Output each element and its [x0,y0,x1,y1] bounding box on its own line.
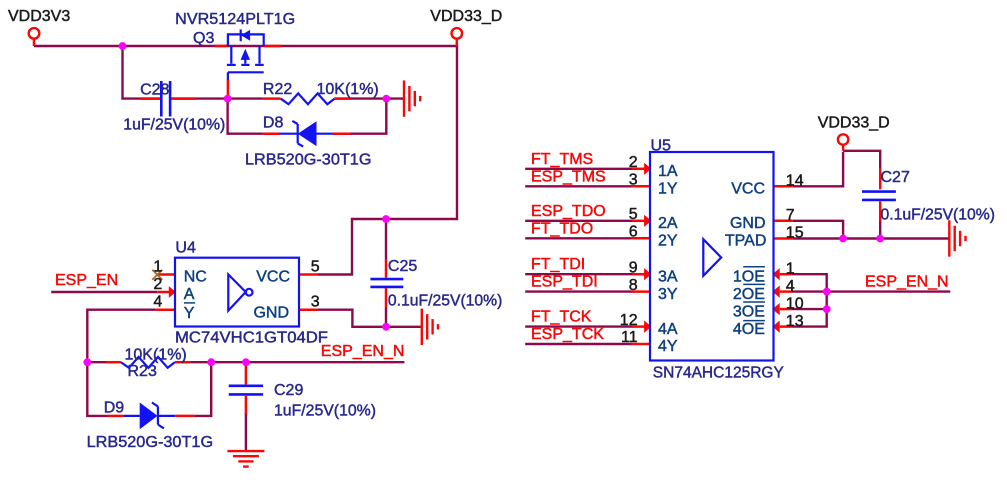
svg-text:MC74VHC1GT04DF: MC74VHC1GT04DF [175,330,328,347]
svg-text:12: 12 [620,312,638,329]
svg-text:U5: U5 [651,138,672,155]
svg-text:ESP_TDO: ESP_TDO [531,203,606,220]
svg-text:A: A [184,286,195,303]
svg-text:VCC: VCC [256,269,290,286]
svg-text:Q3: Q3 [193,30,214,47]
svg-text:13: 13 [786,313,804,330]
svg-text:GND: GND [253,304,289,321]
svg-text:ESP_TMS: ESP_TMS [531,168,606,185]
svg-text:14: 14 [786,173,804,190]
svg-text:6: 6 [629,224,638,241]
svg-text:LRB520G-30T1G: LRB520G-30T1G [245,152,372,169]
svg-text:1A: 1A [658,163,678,180]
svg-text:ESP_TDI: ESP_TDI [531,274,598,291]
svg-text:ESP_EN_N: ESP_EN_N [321,343,405,360]
svg-text:4A: 4A [658,321,678,338]
svg-text:8: 8 [629,277,638,294]
svg-text:1: 1 [786,260,795,277]
svg-text:3: 3 [629,172,638,189]
svg-text:9: 9 [629,259,638,276]
svg-text:10K(1%): 10K(1%) [125,347,187,364]
svg-text:C27: C27 [881,169,910,186]
svg-text:10: 10 [786,295,804,312]
svg-text:2Y: 2Y [658,233,678,250]
svg-text:FT_TMS: FT_TMS [531,151,593,168]
svg-text:3: 3 [311,294,320,311]
svg-text:D9: D9 [104,400,125,417]
svg-text:TPAD: TPAD [725,233,766,250]
svg-text:VDD33_D: VDD33_D [818,114,890,131]
svg-text:3Y: 3Y [658,286,678,303]
svg-text:NC: NC [184,269,207,286]
svg-text:4: 4 [153,294,162,311]
svg-text:1uF/25V(10%): 1uF/25V(10%) [274,403,376,420]
svg-text:10K(1%): 10K(1%) [317,81,379,98]
svg-text:FT_TDO: FT_TDO [531,220,593,237]
svg-text:4Y: 4Y [658,338,678,355]
svg-text:3OE: 3OE [733,303,765,320]
svg-text:R22: R22 [263,81,292,98]
svg-text:0.1uF/25V(10%): 0.1uF/25V(10%) [881,207,996,224]
svg-text:SN74AHC125RGY: SN74AHC125RGY [653,364,784,381]
svg-text:2OE: 2OE [733,286,765,303]
svg-text:1OE: 1OE [733,268,765,285]
svg-text:1uF/25V(10%): 1uF/25V(10%) [123,116,225,133]
svg-text:D8: D8 [263,115,284,132]
svg-text:5: 5 [311,258,320,275]
svg-text:1: 1 [153,258,162,275]
svg-text:C29: C29 [274,382,303,399]
svg-text:2: 2 [153,276,162,293]
svg-text:15: 15 [786,225,804,242]
svg-text:7: 7 [786,207,795,224]
svg-text:4: 4 [786,278,795,295]
svg-text:ESP_EN_N: ESP_EN_N [865,274,949,291]
svg-text:5: 5 [629,206,638,223]
svg-text:FT_TDI: FT_TDI [531,256,585,273]
svg-text:VDD3V3: VDD3V3 [8,8,70,25]
svg-text:2: 2 [629,154,638,171]
svg-text:FT_TCK: FT_TCK [531,309,592,326]
svg-text:R23: R23 [128,363,157,380]
svg-text:11: 11 [621,329,638,346]
svg-text:VDD33_D: VDD33_D [430,8,502,25]
svg-text:U4: U4 [175,240,196,257]
svg-text:C25: C25 [388,258,417,275]
svg-text:1Y: 1Y [658,181,678,198]
svg-text:3A: 3A [658,268,678,285]
svg-text:NVR5124PLT1G: NVR5124PLT1G [175,11,295,28]
svg-text:ESP_EN: ESP_EN [55,272,118,289]
svg-text:4OE: 4OE [733,321,765,338]
svg-text:ESP_TCK: ESP_TCK [531,326,604,343]
svg-text:GND: GND [730,215,766,232]
svg-text:C28: C28 [140,82,169,99]
svg-text:2A: 2A [658,215,678,232]
svg-text:LRB520G-30T1G: LRB520G-30T1G [87,434,214,451]
svg-text:Y: Y [184,305,195,322]
svg-text:0.1uF/25V(10%): 0.1uF/25V(10%) [388,292,503,309]
svg-text:VCC: VCC [731,181,765,198]
